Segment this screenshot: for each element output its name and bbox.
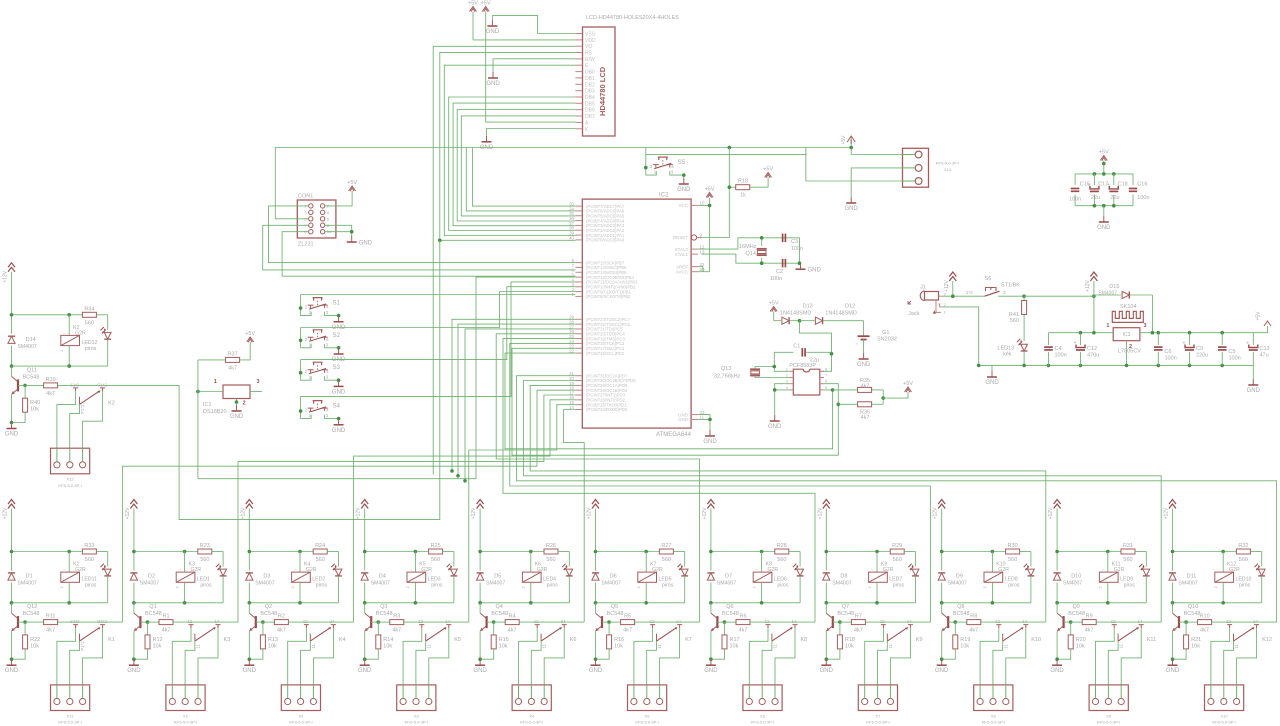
svg-text:R18: R18	[738, 179, 748, 185]
svg-text:14: 14	[792, 619, 797, 624]
junction SDA	[831, 388, 835, 392]
svg-text:+: +	[1107, 182, 1110, 188]
control net PD1 to K5 block	[469, 405, 576, 622]
svg-text:G2R: G2R	[421, 567, 432, 573]
resistor R25 560	[429, 549, 443, 554]
wire CON1 pin7 MISO	[263, 225, 576, 270]
svg-text:4k7: 4k7	[277, 628, 286, 634]
svg-text:K8: K8	[801, 637, 808, 643]
IC2 pin 37 PA3	[575, 224, 582, 226]
svg-text:SM4007: SM4007	[371, 581, 390, 587]
connector X6 KFS-5.0-3P-I	[743, 685, 782, 711]
IC2 pin 21 PD7	[575, 375, 582, 377]
IC2 pin 8 PB7	[575, 262, 582, 264]
svg-text:4k7: 4k7	[854, 628, 863, 634]
diode D10 SM4007	[1056, 552, 1058, 571]
capacitor bank top rail	[1075, 173, 1133, 175]
svg-text:C13: C13	[1260, 346, 1270, 352]
svg-text:+5V: +5V	[903, 381, 913, 387]
svg-text:DB2: DB2	[585, 82, 595, 88]
junction R41 branch	[1022, 294, 1026, 298]
svg-text:BC548: BC548	[260, 611, 277, 617]
top rail (X11 block)	[12, 551, 83, 553]
svg-text:1N4148SMD: 1N4148SMD	[780, 311, 812, 317]
wire S4 top corner	[300, 396, 302, 411]
bottom rail (X11 block)	[12, 602, 108, 604]
transistor Q4 BC548	[479, 603, 481, 613]
wire DS18B20 data line down	[197, 360, 199, 479]
wire XTAL1 to crystal	[702, 254, 800, 263]
+12V supply symbol (X3 block)	[361, 500, 368, 509]
wire CON1 pin2 to +5V	[325, 191, 352, 206]
diode D7 SM4007	[710, 552, 712, 571]
svg-text:GND: GND	[5, 432, 19, 438]
contact wires (X6)	[749, 628, 768, 685]
svg-text:K12: K12	[1262, 637, 1272, 643]
wire S5 right to GND	[683, 175, 685, 178]
resistor R28 560	[775, 549, 789, 554]
+12V supply symbol (X5 block)	[592, 500, 599, 509]
svg-text:560: 560	[85, 320, 94, 326]
svg-text:GND: GND	[5, 668, 19, 674]
svg-text:X14: X14	[944, 167, 952, 172]
svg-text:+12V: +12V	[944, 279, 950, 291]
svg-text:560: 560	[316, 557, 325, 563]
diode D11 SM4007	[1172, 552, 1174, 571]
svg-text:S2: S2	[333, 333, 341, 339]
LCD pin VO	[575, 45, 582, 47]
transistor Q12 BC548	[11, 603, 13, 613]
svg-text:KFS-5.0-3P-I: KFS-5.0-3P-I	[58, 483, 81, 488]
pushbutton S1	[308, 305, 314, 308]
+12V supply symbol (X4 block)	[477, 500, 484, 509]
junction S5 left	[644, 166, 648, 170]
LCD pin DB5	[575, 102, 582, 104]
svg-text:+12V: +12V	[125, 507, 131, 519]
relay K10 G2R coil	[991, 552, 993, 573]
svg-text:14: 14	[1022, 619, 1027, 624]
svg-text:11: 11	[426, 644, 431, 649]
IC2 pin 4 PB3	[575, 281, 582, 283]
IC2 pin 40 PA0	[575, 239, 582, 241]
+12V supply symbol (X6 block)	[707, 500, 714, 509]
svg-text:K11: K11	[1147, 637, 1156, 643]
svg-text:+12V: +12V	[933, 507, 939, 519]
svg-text:D11: D11	[1187, 574, 1197, 580]
svg-text:KFS-5.0-3P-I: KFS-5.0-3P-I	[1212, 720, 1235, 725]
svg-text:AVCC: AVCC	[676, 269, 689, 274]
svg-text:R27: R27	[661, 543, 671, 549]
svg-text:+5V: +5V	[763, 167, 773, 173]
resistor R18 10k	[839, 622, 841, 635]
top rail (X1 block)	[134, 551, 198, 553]
svg-text:R37: R37	[228, 351, 238, 357]
svg-text:VO: VO	[585, 44, 592, 50]
wire IC1 pin1 data	[198, 391, 223, 393]
junction CON1 ground	[350, 230, 354, 234]
svg-text:BC548: BC548	[145, 611, 162, 617]
junction crystal top	[760, 236, 764, 240]
+5V supply symbol (CON1)	[349, 186, 356, 191]
svg-text:4k7: 4k7	[228, 365, 237, 371]
ground GND (cap bank)	[1103, 206, 1105, 216]
svg-text:R32: R32	[1238, 543, 1248, 549]
CON1 pin 9 pad	[309, 230, 313, 234]
svg-text:kék: kék	[1003, 352, 1012, 358]
ground GND (S2)	[338, 348, 340, 354]
svg-text:BC548: BC548	[23, 374, 40, 380]
svg-text:S3: S3	[333, 365, 341, 371]
svg-text:piros: piros	[316, 583, 328, 589]
LCD pin DB3	[575, 90, 582, 92]
svg-text:C5: C5	[1229, 349, 1236, 355]
svg-text:C2: C2	[776, 269, 783, 275]
svg-text:Q3: Q3	[380, 604, 387, 610]
wire LCD DB4 to PA2	[449, 97, 576, 231]
diode D12 1N4148SMD	[800, 320, 815, 322]
svg-text:220u: 220u	[1196, 353, 1208, 359]
svg-text:GND: GND	[486, 81, 500, 87]
svg-text:4k7: 4k7	[46, 391, 55, 397]
svg-text:CON1: CON1	[298, 194, 313, 200]
resistor R33 560	[82, 549, 96, 554]
svg-text:G2R: G2R	[1114, 567, 1125, 573]
svg-text:4k7: 4k7	[162, 628, 171, 634]
svg-text:BC548: BC548	[1184, 611, 1201, 617]
svg-text:Q10: Q10	[1188, 604, 1198, 610]
junction SCL	[837, 403, 841, 407]
svg-text:R2: R2	[278, 614, 285, 620]
svg-text:+5V: +5V	[347, 180, 357, 186]
svg-text:HD44780 LCD: HD44780 LCD	[598, 66, 607, 116]
svg-text:+12V: +12V	[356, 507, 362, 519]
svg-text:C6: C6	[1165, 349, 1172, 355]
svg-text:X1: X1	[183, 713, 189, 718]
connector X9 KFS-5.0-3P-I	[1089, 685, 1128, 711]
svg-text:D14: D14	[26, 337, 36, 343]
wire IC1 pin2 to GND	[236, 399, 238, 406]
diode D1 SM4007	[11, 552, 13, 571]
svg-text:2: 2	[243, 401, 246, 407]
svg-text:1*2: 1*2	[966, 290, 973, 295]
ground GND (Q7)	[825, 631, 827, 659]
svg-text:SM4007: SM4007	[1178, 581, 1197, 587]
svg-text:R17: R17	[730, 637, 740, 643]
diode D3 SM4007	[248, 552, 250, 571]
svg-text:Q5: Q5	[611, 604, 618, 610]
control net PD6 to K11 block	[523, 381, 1161, 623]
svg-text:100n: 100n	[1055, 353, 1067, 359]
svg-text:470u: 470u	[1087, 353, 1099, 359]
svg-text:SM4007: SM4007	[717, 581, 736, 587]
wire VDD net to PCF8583	[800, 321, 832, 372]
svg-text:14: 14	[445, 619, 450, 624]
svg-text:R33: R33	[84, 543, 94, 549]
top rail (X7 block)	[826, 551, 890, 553]
+12V supply symbol (X8 block)	[938, 500, 945, 509]
svg-text:GND: GND	[677, 187, 691, 193]
pushbutton S4	[308, 408, 314, 411]
svg-text:ST1/BK: ST1/BK	[1001, 283, 1020, 289]
svg-text:GND: GND	[486, 29, 500, 35]
svg-text:P1*2: P1*2	[80, 404, 85, 414]
transistor Q9 BC548	[1056, 603, 1058, 613]
svg-text:R8: R8	[970, 614, 977, 620]
+5V supply symbol (MCU VCC)	[706, 193, 713, 198]
ground GND (Q8)	[941, 631, 943, 659]
svg-text:Q9: Q9	[1073, 604, 1080, 610]
+5V supply symbol (LCD VDD)	[470, 7, 477, 12]
svg-text:DB6: DB6	[585, 108, 595, 114]
bottom rail (X5 block)	[596, 602, 685, 604]
svg-text:K3: K3	[224, 637, 231, 643]
IC2 pin 36 PA4	[575, 220, 582, 222]
+5V supply symbol (LCD backlight)	[482, 7, 489, 12]
svg-text:R12: R12	[153, 637, 163, 643]
svg-text:VSS: VSS	[585, 32, 596, 38]
svg-text:C18: C18	[1118, 182, 1128, 188]
IC2 pin 12 XTAL2	[691, 248, 698, 250]
svg-text:GND: GND	[589, 668, 603, 674]
svg-text:C3: C3	[791, 239, 798, 245]
IC2 pin 2 PB1	[575, 291, 582, 293]
svg-text:Q2: Q2	[265, 604, 272, 610]
svg-text:C12: C12	[1087, 346, 1097, 352]
CON1 pin 6 pad	[320, 217, 324, 221]
bottom rail (X7 block)	[826, 602, 915, 604]
svg-text:G2R: G2R	[652, 567, 663, 573]
relay contacts K8	[766, 625, 771, 629]
resistor R37 4k7	[198, 359, 226, 361]
svg-text:16MHz: 16MHz	[739, 244, 757, 250]
svg-text:Q7: Q7	[842, 604, 849, 610]
control net PD0 to K6 block	[564, 410, 585, 623]
resistor R24 560	[313, 549, 327, 554]
resistor R4 4k7	[494, 621, 506, 623]
ground GND (Q6)	[710, 631, 712, 659]
svg-text:piros: piros	[200, 583, 212, 589]
svg-text:P1*2: P1*2	[80, 641, 85, 651]
svg-text:+5V: +5V	[1256, 311, 1262, 321]
IC2 pin 6 PB5	[575, 271, 582, 273]
svg-text:R39: R39	[46, 377, 56, 383]
ground GND (S4)	[338, 419, 340, 425]
svg-text:12: 12	[534, 619, 539, 624]
wire S4 to MCU	[301, 282, 576, 397]
ground GND (LCD K)	[486, 136, 488, 142]
svg-text:GND: GND	[358, 668, 372, 674]
resistor R12 10k	[147, 622, 149, 635]
resistor R16 10k	[608, 622, 610, 635]
resistor R5 4k7	[609, 621, 621, 623]
resistor R22 10k	[24, 622, 26, 635]
diode D14 SM4007	[11, 315, 13, 334]
bottom rail (X9 block)	[1057, 602, 1146, 604]
svg-text:D13: D13	[803, 304, 813, 310]
svg-text:C4: C4	[1055, 346, 1062, 352]
svg-text:BC548: BC548	[1068, 611, 1085, 617]
wire jack to switch	[941, 295, 985, 297]
svg-text:S4: S4	[333, 404, 341, 410]
wire Q13 to pin1	[755, 367, 774, 370]
LED LED10 piros	[1261, 552, 1263, 567]
svg-text:D1: D1	[26, 574, 33, 580]
svg-text:+12V: +12V	[1164, 507, 1170, 519]
LCD pin VDD	[575, 39, 582, 41]
connector X10 KFS-5.0-3P-I	[1205, 685, 1244, 711]
transistor Q6 BC548	[710, 603, 712, 613]
junction D13-D12	[798, 319, 802, 323]
wire X14 pin3 reset net	[646, 155, 903, 181]
svg-text:GND: GND	[127, 668, 141, 674]
connector X2 KFS-5.0-3P-I	[281, 685, 320, 711]
svg-text:R9: R9	[1086, 614, 1093, 620]
junction S4 gnd	[337, 417, 341, 421]
ground GND (S5)	[683, 178, 685, 184]
svg-text:X8: X8	[991, 713, 997, 718]
svg-text:O1*2: O1*2	[97, 382, 107, 387]
wire VCC/AVCC to +5V	[709, 198, 711, 272]
capacitor C3 100n	[782, 234, 784, 243]
control net PD2 to K4 block	[353, 400, 575, 622]
relay contacts K12	[1227, 625, 1232, 629]
svg-text:560: 560	[1008, 557, 1017, 563]
svg-text:R28: R28	[777, 543, 787, 549]
svg-text:IC1: IC1	[203, 402, 212, 408]
resistor R10 4k7	[1186, 621, 1198, 623]
wire LCD RS	[440, 52, 576, 240]
svg-text:100n: 100n	[1165, 356, 1177, 362]
+5V supply symbol (I2C pullups)	[905, 387, 912, 392]
svg-text:BC548: BC548	[722, 611, 739, 617]
svg-text:30: 30	[700, 267, 705, 272]
wire CON1 pin8 pin10 to GND	[325, 225, 352, 231]
wire to regulator input	[1024, 295, 1094, 297]
capacitor C13 47u	[1252, 333, 1254, 345]
svg-text:R15: R15	[499, 637, 509, 643]
svg-text:4k7: 4k7	[623, 628, 632, 634]
svg-text:piros: piros	[1124, 583, 1136, 589]
svg-text:KFS-5.0-3P-I: KFS-5.0-3P-I	[866, 720, 889, 725]
wire X14 pin1 to +5V	[851, 136, 902, 155]
connector X7 KFS-5.0-3P-I	[858, 685, 897, 711]
svg-text:10k: 10k	[268, 643, 277, 649]
svg-text:Q11: Q11	[27, 368, 37, 374]
IC2 pin 19 PD5	[575, 384, 582, 386]
svg-text:SM4007: SM4007	[948, 581, 967, 587]
svg-text:R31: R31	[1123, 543, 1133, 549]
junction S1 gnd	[337, 314, 341, 318]
relay K3 G2R coil	[184, 552, 186, 573]
LED LED4 piros	[568, 552, 570, 567]
svg-text:10: 10	[700, 201, 705, 206]
svg-text:10k: 10k	[845, 643, 854, 649]
svg-text:VDD: VDD	[585, 38, 596, 44]
svg-text:+: +	[1087, 182, 1090, 188]
svg-text:+12V: +12V	[3, 270, 9, 282]
relay contacts K1	[73, 625, 78, 629]
svg-text:GND: GND	[820, 668, 834, 674]
svg-text:X5: X5	[645, 713, 651, 718]
wire PC5	[465, 329, 575, 481]
connector X11 KFS-5.0-3P-I	[51, 685, 90, 711]
svg-text:D15: D15	[1109, 284, 1119, 290]
resistor R30 560	[1006, 549, 1020, 554]
svg-text:+5V: +5V	[1099, 150, 1109, 156]
wire AREF	[698, 266, 703, 268]
CON1 pin 10 pad	[320, 230, 324, 234]
svg-text:G2R: G2R	[1229, 567, 1240, 573]
svg-text:IC3: IC3	[1123, 332, 1131, 338]
IC2 pin 7 PB6	[575, 266, 582, 268]
capacitor C17 22u	[1093, 174, 1095, 185]
wire IC1 data to PB4	[198, 277, 576, 479]
svg-text:R19: R19	[960, 637, 970, 643]
LCD pin R/W	[575, 58, 582, 60]
CON1 pin 2 pad	[320, 204, 324, 208]
svg-text:Q13: Q13	[721, 366, 731, 372]
control net PC2 to K9 block	[510, 343, 931, 622]
svg-text:100n: 100n	[1069, 197, 1081, 203]
svg-text:R5: R5	[624, 614, 631, 620]
transistor Q10 BC548	[1172, 603, 1174, 613]
svg-text:K7: K7	[685, 637, 692, 643]
svg-text:PCF8583P: PCF8583P	[789, 363, 816, 369]
relay K7 G2R coil	[645, 552, 647, 573]
svg-text:ZL231: ZL231	[298, 242, 314, 248]
svg-text:(PCINT16/SCL)PC0: (PCINT16/SCL)PC0	[586, 351, 625, 356]
wire LCD DB5 to PA3	[453, 103, 575, 226]
junction cap gnd	[798, 261, 802, 265]
svg-text:10k: 10k	[1191, 643, 1200, 649]
wire regulator output rail	[1140, 332, 1253, 334]
svg-text:KFS-5.0-3P-I: KFS-5.0-3P-I	[405, 720, 428, 725]
svg-text:3: 3	[257, 379, 260, 385]
svg-text:KFS-5.0-3P-I: KFS-5.0-3P-I	[982, 720, 1005, 725]
svg-text:12: 12	[1111, 619, 1116, 624]
svg-text:11: 11	[542, 644, 547, 649]
wire pin3 pin4 to GND	[775, 384, 790, 390]
svg-text:piros: piros	[431, 583, 443, 589]
svg-text:(PCINT0/ADC0)PA0: (PCINT0/ADC0)PA0	[586, 238, 625, 243]
svg-text:12: 12	[188, 619, 193, 624]
diode D9 SM4007	[941, 552, 943, 571]
wire XTAL2 to crystal	[698, 238, 800, 249]
LCD pin RS	[575, 52, 582, 54]
svg-text:R7: R7	[855, 614, 862, 620]
svg-text:piros: piros	[777, 583, 789, 589]
svg-text:100n: 100n	[770, 276, 782, 282]
svg-text:Q8: Q8	[957, 604, 964, 610]
svg-text:S1: S1	[333, 301, 341, 307]
+12V supply symbol (X10 block)	[1169, 500, 1176, 509]
svg-text:Q6: Q6	[726, 604, 733, 610]
wire S2 to MCU	[301, 292, 576, 328]
bottom rail (X3 block)	[365, 602, 454, 604]
connector X12 KFS-5.0-3P-I	[51, 448, 90, 474]
control wire (K2 block)	[123, 240, 440, 519]
capacitor C16 100n	[1132, 174, 1134, 185]
contact wires (X11)	[57, 628, 76, 685]
IC2 pin 27 PC5	[575, 328, 582, 330]
svg-text:DB5: DB5	[585, 101, 595, 107]
resistor R19 10k	[954, 622, 956, 635]
wire S3 to MCU	[301, 287, 576, 360]
svg-text:4k7: 4k7	[969, 628, 978, 634]
capacitor C1 22p	[774, 352, 793, 366]
wire LCD VO	[433, 46, 575, 474]
pushbutton S2	[308, 337, 314, 340]
